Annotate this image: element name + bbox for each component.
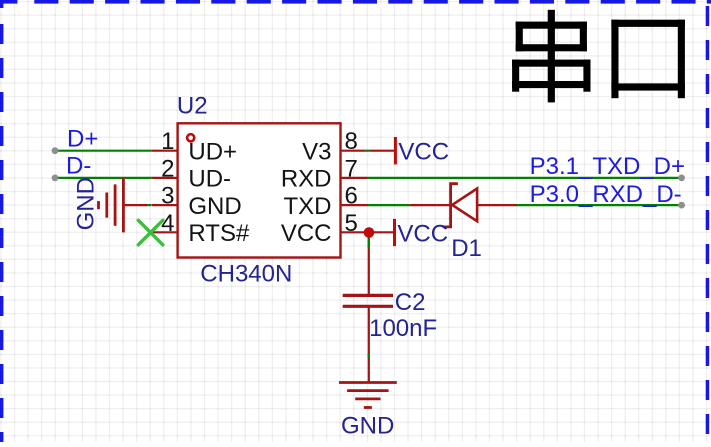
svg-text:RXD: RXD [281,166,332,193]
title glyph 串 [548,10,555,103]
svg-text:VCC: VCC [281,220,332,247]
VCC bar pin5 [393,219,396,246]
gnd left bar 4 [97,201,100,209]
wire pin8 seg [366,150,370,152]
gnd left stem [123,204,147,206]
pin 1 stub [151,150,177,152]
pin 5 stub + VCC stem [341,231,395,233]
wire TXD to diode [368,204,410,206]
svg-text:1: 1 [161,128,174,155]
gnd bottom bars [339,381,397,384]
svg-text:CH340N: CH340N [200,260,292,287]
svg-text:8: 8 [345,128,358,155]
svg-text:D+: D+ [67,125,98,152]
capacitor C2 plates [343,294,393,297]
VCC bar pin8 [394,137,397,164]
pin 6 stub [341,204,368,206]
pin 1 indicator circle [187,134,194,141]
endpoint dot D- [52,175,59,182]
pin 7 stub [341,177,368,179]
svg-text:2: 2 [161,155,174,182]
pin 8 stub [341,150,366,152]
svg-text:GND: GND [188,193,241,220]
gnd left bar 3 [105,193,108,218]
endpoint dot TXD [678,175,685,182]
svg-text:C2: C2 [395,289,426,316]
svg-text:D1: D1 [451,235,482,262]
pin 3 stub [152,204,178,206]
svg-text:7: 7 [345,155,358,182]
endpoint dot D+ [52,147,59,154]
svg-text:VCC: VCC [398,138,449,165]
svg-text:6: 6 [345,183,358,210]
no-connect X pin4 [138,220,163,245]
diode D1 cathode bar [443,184,458,227]
op IC U2 body [178,123,341,257]
diode D1 anode wire [477,204,516,206]
pin 4 stub [153,231,178,233]
svg-text:RTS#: RTS# [188,220,250,247]
svg-text:V3: V3 [302,138,331,165]
VCC stem pin8 [370,150,395,152]
svg-text:UD+: UD+ [188,138,237,165]
junction dot pin5 [364,227,375,238]
svg-text:5: 5 [345,210,358,237]
svg-text:P3.1_TXD_D+: P3.1_TXD_D+ [530,153,685,180]
svg-text:100nF: 100nF [369,315,437,342]
wire D- [55,177,151,179]
wire D+ [55,150,151,152]
svg-text:VCC: VCC [397,220,448,247]
svg-text:3: 3 [161,183,174,210]
diode D1 triangle [452,189,477,222]
page border (blue dashed) [0,0,17,4]
wire VCC down 1 [368,232,370,295]
pin 2 stub [151,177,177,179]
svg-text:GND: GND [341,413,394,440]
gnd left bar vertical long [122,178,125,232]
svg-text:TXD: TXD [284,193,332,220]
wire RXD net [367,177,682,179]
wire diode cathode red [409,204,451,206]
svg-text:GND: GND [73,177,100,230]
svg-text:4: 4 [161,210,174,237]
svg-text:P3.0_RXD_D-: P3.0_RXD_D- [530,181,682,208]
svg-text:D-: D- [66,153,91,180]
wire green seg below dot [368,239,370,249]
title glyph 口 [611,20,618,99]
wire cap to gnd [368,306,370,382]
wire pin3-gnd [148,204,152,206]
wire diode to edge [517,204,682,206]
endpoint dot RXD [678,202,685,209]
gnd left bar 2 [114,184,117,225]
svg-text:UD-: UD- [188,166,231,193]
wire green seg mid [368,353,370,358]
svg-text:U2: U2 [177,93,208,120]
